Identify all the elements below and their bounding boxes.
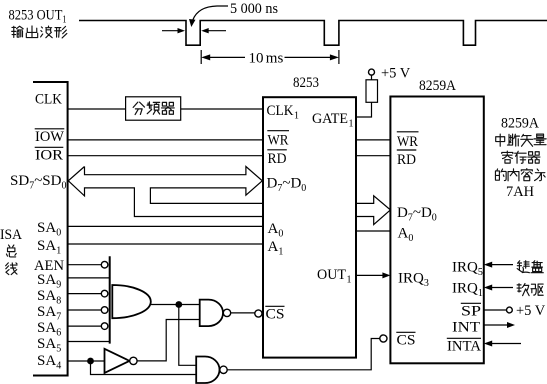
svg-text:IRQ5: IRQ5 xyxy=(452,260,483,279)
svg-text:D7~D0: D7~D0 xyxy=(267,176,307,195)
svg-text:1: 1 xyxy=(349,119,354,130)
svg-text:+5 V: +5 V xyxy=(516,303,546,319)
wire AND output to NAND1 xyxy=(151,304,200,306)
wire SA4 to inverter xyxy=(68,360,104,362)
svg-text:A0: A0 xyxy=(268,221,284,240)
wire resistor to GATE1 xyxy=(356,102,372,117)
AND gate input bubble SA7 xyxy=(101,307,108,314)
svg-text:CS: CS xyxy=(397,333,416,349)
svg-text:ms: ms xyxy=(266,51,284,67)
resistor R1 xyxy=(366,80,378,103)
svg-text:8259A: 8259A xyxy=(419,78,456,94)
wire OUT1 to IRQ3 with arrow xyxy=(356,274,383,276)
svg-text:A0: A0 xyxy=(398,226,414,245)
svg-text:INT: INT xyxy=(452,320,480,336)
AND gate U3 body xyxy=(112,285,151,318)
svg-text:IRQ3: IRQ3 xyxy=(398,271,429,290)
wire SA9 xyxy=(68,277,110,279)
AND gate U3 input bar xyxy=(109,256,111,343)
svg-text:5 000 ns: 5 000 ns xyxy=(230,1,278,17)
wire inverter out to NAND1 lower input xyxy=(137,320,200,361)
leader curve to 5 000 ns xyxy=(193,6,228,20)
svg-text:OUT: OUT xyxy=(317,267,346,283)
svg-text:IOW: IOW xyxy=(35,129,65,145)
svg-text:SA0: SA0 xyxy=(37,220,61,239)
wire SA1/A1 xyxy=(68,243,263,245)
svg-text:7AH: 7AH xyxy=(506,184,534,200)
+5V terminal circle xyxy=(369,69,375,75)
8253 CS bubble xyxy=(255,310,262,317)
svg-text:IOR: IOR xyxy=(35,148,63,164)
NAND gate U5 body xyxy=(200,300,223,327)
junction node A xyxy=(175,301,182,308)
svg-text:RD: RD xyxy=(397,152,416,168)
wire SA0/A0 xyxy=(68,226,391,231)
svg-text:10: 10 xyxy=(249,51,264,67)
svg-text:RD: RD xyxy=(268,151,287,167)
svg-text:WR: WR xyxy=(268,133,289,149)
svg-text:CLK: CLK xyxy=(267,103,294,119)
ISA bus box xyxy=(33,82,68,376)
wire SA4 dot to NAND2 lower input xyxy=(91,361,197,375)
waveform label: 输出波形 xyxy=(12,26,23,37)
svg-text:SA4: SA4 xyxy=(37,353,61,372)
data bus double arrow ISA-8253 upper outline xyxy=(85,167,264,204)
NAND gate U6 output bubble xyxy=(220,366,227,373)
right text: 中断矢量 xyxy=(496,134,505,146)
svg-text:1: 1 xyxy=(347,275,352,286)
wire CLK to divider xyxy=(68,108,263,110)
right text: 寄存器 xyxy=(502,151,513,163)
label 键盘 xyxy=(517,261,529,273)
wire SP to +5V xyxy=(484,309,507,311)
wire SA7 xyxy=(68,309,102,311)
right text: 的内容为 xyxy=(495,169,506,181)
inverter U4 output bubble xyxy=(130,357,137,364)
AND gate input bubble SA8 xyxy=(101,290,108,297)
waveform OUT1 trace xyxy=(79,21,547,46)
wire SA5 xyxy=(68,341,110,343)
svg-text:CS: CS xyxy=(266,307,285,323)
wire SA8 xyxy=(68,293,102,295)
svg-text:ISA: ISA xyxy=(0,227,22,243)
8259A CS bubble xyxy=(380,335,387,342)
wire AEN xyxy=(68,264,102,266)
AND gate input bubble AEN xyxy=(101,261,108,268)
svg-text:IRQ1: IRQ1 xyxy=(452,281,483,300)
svg-text:8253: 8253 xyxy=(293,75,319,91)
wire +5V to resistor xyxy=(371,75,373,80)
svg-text:SP: SP xyxy=(461,304,481,320)
svg-text:1: 1 xyxy=(294,111,299,122)
pulse width measure arrow left xyxy=(162,30,180,32)
svg-text:SA1: SA1 xyxy=(37,238,61,257)
+5V terminal circle (SP) xyxy=(507,307,513,313)
wire NAND1 out to 8253 CS xyxy=(231,312,255,314)
svg-text:SD7~SD0: SD7~SD0 xyxy=(10,173,66,192)
wire IRQ5 keyboard with arrow into chip xyxy=(492,264,513,266)
AND gate input bubble SA6 xyxy=(101,323,108,330)
svg-text:INTA: INTA xyxy=(447,339,481,355)
wire IOW xyxy=(68,139,391,141)
wire SA6 xyxy=(68,325,102,327)
svg-text:GATE: GATE xyxy=(312,111,348,127)
svg-text:WR: WR xyxy=(397,134,418,150)
wire NAND2 out to 8259A CS xyxy=(227,339,380,370)
NAND gate U5 output bubble xyxy=(223,309,230,316)
label 软驱 xyxy=(517,284,529,296)
svg-text:D7~D0: D7~D0 xyxy=(397,205,437,224)
wire node A down to NAND2 top input xyxy=(179,305,196,366)
dimension 10 ms xyxy=(201,50,339,64)
pulse width measure arrow right xyxy=(208,30,226,32)
junction dot SA4 xyxy=(87,358,94,365)
8253 chip box U1 xyxy=(263,97,356,357)
svg-text:8259A: 8259A xyxy=(501,116,539,132)
svg-text:+5 V: +5 V xyxy=(381,66,411,82)
svg-text:CLK: CLK xyxy=(35,92,62,108)
inverter U4 xyxy=(105,349,130,373)
data bus segment 8253 to 8259A with arrow head xyxy=(356,196,390,225)
svg-text:SA5: SA5 xyxy=(37,336,61,355)
wire INTA input arrow xyxy=(492,343,521,345)
wire IRQ1 floppy with arrow into chip xyxy=(492,287,513,289)
data bus double arrow left head and branch outer edge xyxy=(68,167,263,217)
8259A chip box U2 xyxy=(390,97,483,364)
svg-text:8253 OUT1: 8253 OUT1 xyxy=(9,8,67,26)
wire INT output arrow xyxy=(484,324,507,326)
wire IOR xyxy=(68,155,391,157)
NAND gate U6 body xyxy=(196,357,219,384)
svg-text:A1: A1 xyxy=(268,239,284,258)
divider box 分频器 xyxy=(126,97,181,120)
